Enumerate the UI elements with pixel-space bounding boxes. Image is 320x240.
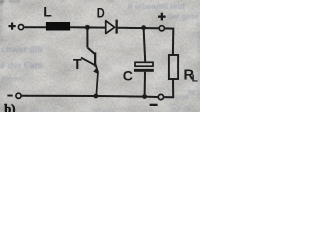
svg-text:b): b): [4, 102, 15, 112]
svg-text:T: T: [73, 57, 82, 73]
svg-text:D: D: [97, 5, 105, 21]
svg-text:ht: ht: [188, 90, 195, 97]
svg-text:L: L: [43, 3, 52, 19]
svg-text:chwer dili: chwer dili: [1, 45, 43, 55]
svg-text:nd wie: nd wie: [92, 108, 114, 112]
svg-text:nur ge: nur ge: [170, 106, 191, 112]
svg-text:un sel: un sel: [2, 74, 25, 83]
svg-text:im einst: im einst: [30, 107, 57, 112]
svg-text:L: L: [192, 74, 198, 85]
svg-text:C: C: [123, 67, 133, 83]
svg-text:il utbeamtl und: il utbeamtl und: [128, 2, 185, 11]
svg-text:e der Fam: e der Fam: [0, 61, 43, 71]
svg-text:der gebi: der gebi: [167, 12, 198, 21]
